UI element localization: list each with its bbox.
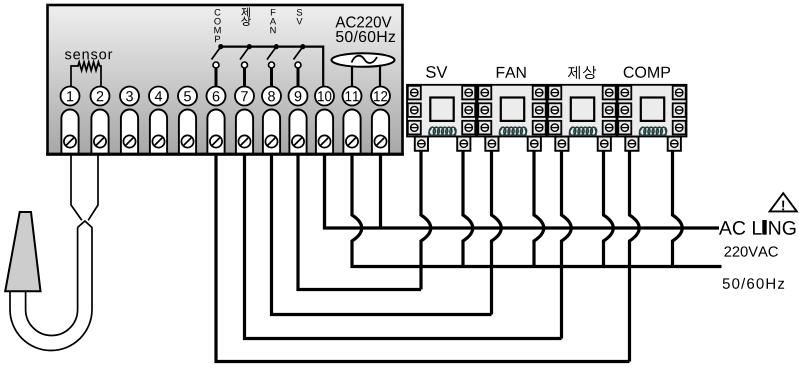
terminal 7 bbox=[235, 87, 254, 106]
switch contact SV (terminal 9) bbox=[294, 44, 306, 87]
label FAN (vertical) bbox=[270, 9, 276, 33]
relay JESANG body bbox=[548, 85, 617, 137]
screw terminal slot 12 bbox=[372, 109, 389, 154]
relay JESANG coil bbox=[569, 127, 597, 136]
wire terminal 6 to COMP relay coil bbox=[216, 154, 630, 362]
sensor resistor bbox=[71, 62, 101, 88]
relay JESANG right contact terminal 2 bbox=[603, 103, 616, 117]
terminal 6 bbox=[207, 87, 226, 106]
screw terminal slot 4 bbox=[150, 109, 167, 154]
wire terminal 8 to FAN relay coil bbox=[272, 154, 492, 315]
wire terminal 10 to AC line (upper) bbox=[325, 154, 720, 228]
relay SV left contact terminal 3 bbox=[408, 121, 421, 135]
wire terminal 12 to AC line bbox=[379, 154, 382, 228]
screw terminal slot 5 bbox=[179, 109, 196, 154]
warning symbol bbox=[770, 193, 797, 211]
relay FAN right contact terminal 2 bbox=[533, 103, 546, 117]
sensor label bbox=[65, 51, 112, 59]
relay FAN left contact terminal 2 bbox=[478, 103, 491, 117]
wire JESANG coil A down (hops AC line) bbox=[562, 151, 572, 339]
relay COMP right contact terminal 3 bbox=[673, 121, 686, 135]
screw terminal slot 3 bbox=[121, 109, 138, 154]
relay SV label bbox=[426, 66, 447, 78]
terminal 3 bbox=[120, 87, 139, 106]
relay FAN left contact terminal 3 bbox=[478, 121, 491, 135]
relay SV right contact terminal 2 bbox=[462, 103, 475, 117]
relay SV coil terminal A bbox=[415, 137, 428, 151]
terminal 1 bbox=[61, 87, 80, 106]
wire JESANG coil B to 220VAC line (hops AC line) bbox=[604, 151, 614, 267]
controller box bbox=[48, 5, 403, 154]
relay FAN left contact terminal 1 bbox=[478, 86, 491, 100]
relay FAN label bbox=[497, 67, 526, 78]
relay COMP left contact terminal 3 bbox=[618, 121, 631, 135]
relay COMP right contact terminal 1 bbox=[673, 86, 686, 100]
terminal 12 bbox=[371, 87, 390, 106]
label COMP (vertical) bbox=[214, 9, 220, 42]
switch contact FAN (terminal 8) bbox=[267, 44, 279, 87]
net label 220VAC bbox=[724, 246, 777, 256]
switch contact COMP (terminal 6) bbox=[212, 44, 224, 87]
bus wire switches to terminal 10 bbox=[221, 47, 323, 87]
relay FAN coil bbox=[499, 127, 527, 136]
wire AC source to terminal 11 bbox=[351, 66, 353, 87]
relay FAN right contact terminal 3 bbox=[533, 121, 546, 135]
relay JESANG right contact terminal 1 bbox=[603, 86, 616, 100]
relay COMP label bbox=[624, 67, 670, 78]
relay SV coil bbox=[429, 127, 457, 136]
relay JESANG coil terminal B bbox=[598, 137, 611, 151]
wire SV coil A down (hops AC line) bbox=[421, 151, 431, 290]
relay COMP coil terminal B bbox=[668, 137, 681, 151]
sensor probe bbox=[5, 212, 40, 291]
relay JESANG right contact terminal 3 bbox=[603, 121, 616, 135]
wire SV coil B to 220VAC line (hops AC line) bbox=[463, 151, 473, 267]
net label 50/60Hz bbox=[723, 278, 784, 289]
relay JESANG left contact terminal 1 bbox=[548, 86, 561, 100]
screw terminal slot 11 bbox=[343, 109, 360, 154]
relay COMP left contact terminal 1 bbox=[618, 86, 631, 100]
relay SV body bbox=[407, 85, 476, 137]
label JESANG (vertical) bbox=[241, 7, 251, 26]
terminal 10 bbox=[315, 87, 334, 106]
terminal 5 bbox=[178, 87, 197, 106]
relay SV right contact terminal 1 bbox=[462, 86, 475, 100]
terminal 4 bbox=[149, 87, 168, 106]
relay FAN right contact terminal 1 bbox=[533, 86, 546, 100]
relay FAN coil terminal B bbox=[528, 137, 541, 151]
terminal 2 bbox=[91, 87, 110, 106]
wire terminal 7 to JESANG relay coil bbox=[245, 154, 562, 339]
relay FAN body bbox=[478, 85, 547, 137]
relay JESANG left contact terminal 3 bbox=[548, 121, 561, 135]
controller box bottom edge bbox=[46, 153, 404, 156]
sensor cable tube bbox=[10, 221, 92, 351]
wire COMP coil A down (hops AC line) bbox=[630, 151, 640, 362]
relay JESANG label bbox=[568, 66, 596, 79]
wire FAN coil B to 220VAC line (hops AC line) bbox=[534, 151, 544, 267]
screw terminal slot 2 bbox=[91, 110, 108, 155]
wire FAN coil A down (hops AC line) bbox=[492, 151, 502, 315]
terminal 8 bbox=[262, 87, 281, 106]
net label AC LING bbox=[719, 220, 796, 235]
wire terminal 1 to sensor bbox=[71, 156, 82, 221]
screw terminal slot 10 bbox=[316, 109, 333, 154]
wire AC source to terminal 12 bbox=[379, 66, 381, 87]
relay JESANG left contact terminal 2 bbox=[548, 103, 561, 117]
relay COMP coil terminal A bbox=[625, 137, 638, 151]
relay COMP right contact terminal 2 bbox=[673, 103, 686, 117]
relay SV coil terminal B bbox=[457, 137, 470, 151]
switch contact JESANG (terminal 7) bbox=[240, 44, 252, 87]
screw terminal slot 6 bbox=[207, 109, 224, 154]
relay SV left contact terminal 1 bbox=[408, 86, 421, 100]
screw terminal slot 8 bbox=[263, 109, 280, 154]
screw terminal slot 1 bbox=[61, 110, 78, 155]
wire terminal 11 to 220VAC line (lower, hops AC line) bbox=[352, 154, 722, 267]
relay COMP body bbox=[618, 85, 687, 137]
terminal 9 bbox=[289, 87, 308, 106]
wire terminal 9 to SV relay coil bbox=[298, 154, 421, 290]
relay COMP coil bbox=[639, 127, 667, 136]
AC source symbol bbox=[332, 53, 395, 67]
relay SV left contact terminal 2 bbox=[408, 103, 421, 117]
relay SV right contact terminal 3 bbox=[462, 121, 475, 135]
terminal 11 bbox=[343, 87, 362, 106]
relay JESANG coil terminal A bbox=[555, 137, 568, 151]
label SV (vertical) bbox=[296, 9, 302, 24]
screw terminal slot 7 bbox=[236, 109, 253, 154]
relay COMP left contact terminal 2 bbox=[618, 103, 631, 117]
screw terminal slot 9 bbox=[289, 109, 306, 154]
relay FAN coil terminal A bbox=[485, 137, 498, 151]
wire COMP coil B to 220VAC line (hops AC line) bbox=[673, 151, 683, 267]
label AC220V 50/60Hz bbox=[335, 16, 395, 42]
wire terminal 2 to sensor bbox=[88, 156, 98, 221]
